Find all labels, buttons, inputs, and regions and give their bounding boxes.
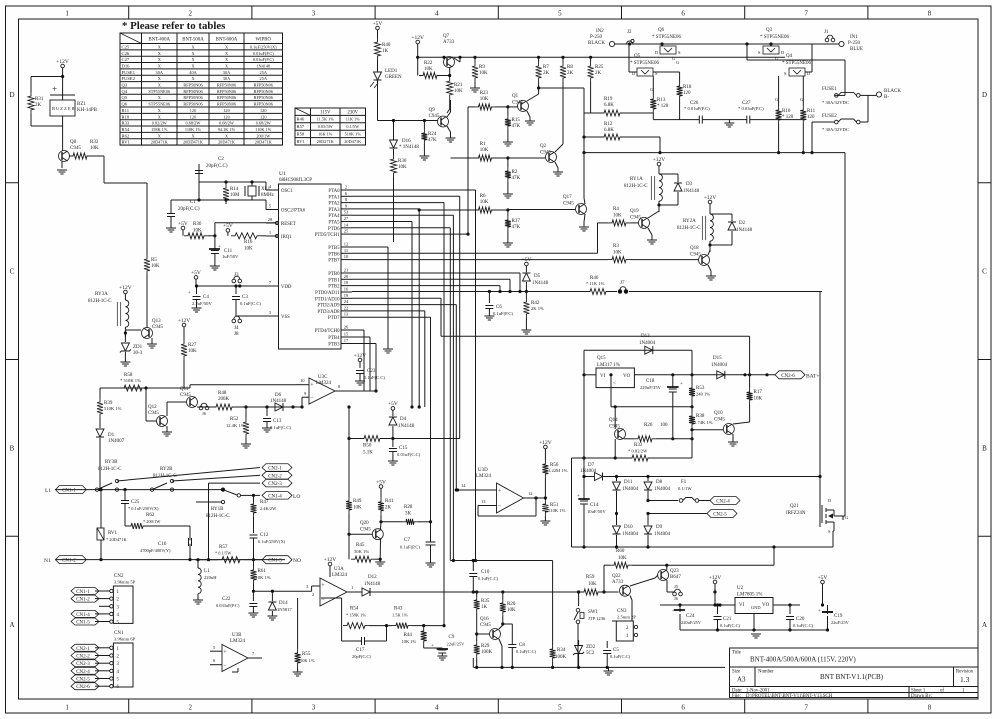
svg-text:Q8: Q8 [70, 140, 77, 145]
flag CN2-3 [262, 479, 292, 487]
svg-text:14: 14 [344, 222, 349, 227]
wire J5 J6 jumpers [673, 592, 677, 596]
resistor R21 10K [447, 77, 453, 99]
svg-text:1N4004: 1N4004 [654, 532, 671, 537]
wire ADJ row [615, 406, 692, 408]
svg-text:PTD0/AD11: PTD0/AD11 [315, 291, 340, 296]
flag CN2-1 [117, 468, 260, 482]
wire charger top rail D13 [584, 349, 692, 351]
wire Q9 collector R21 [447, 112, 451, 117]
svg-text:* 0.82/2W: * 0.82/2W [628, 449, 648, 454]
svg-text:G: G [845, 515, 849, 520]
wire Q10 collector [749, 420, 751, 422]
svg-text:C945: C945 [480, 623, 491, 628]
svg-text:+12V: +12V [653, 157, 666, 163]
flag CN2-4 [710, 497, 740, 505]
svg-text:3.96mm 6P: 3.96mm 6P [114, 637, 136, 642]
ground U2 [753, 614, 755, 631]
flag CN1-5 pin5 [71, 618, 99, 625]
opamp U3C LM324 [309, 378, 335, 404]
wire Q4 drain to rail [805, 71, 812, 73]
svg-text:3: 3 [269, 310, 272, 315]
svg-text:PTA3: PTA3 [328, 208, 340, 213]
wire bus PTD1 battery sense run [352, 297, 441, 299]
svg-text:2K 1%: 2K 1% [531, 306, 544, 311]
svg-text:120: 120 [260, 108, 266, 113]
resistor R50 5.1K [360, 436, 384, 442]
diode D14 1N5817 [271, 591, 273, 601]
svg-text:D16: D16 [402, 139, 411, 144]
svg-text:R10: R10 [782, 109, 791, 114]
svg-text:3: 3 [117, 662, 120, 667]
resistor R49 10K [348, 407, 350, 497]
capacitor C4 2.2uF/50V [196, 286, 198, 294]
svg-text:CN1-2: CN1-2 [76, 598, 90, 603]
led LED1 GREEN [374, 72, 382, 80]
svg-text:J5: J5 [674, 584, 679, 589]
wire bus PTA2 run [352, 202, 444, 204]
svg-text:200/1W: 200/1W [256, 133, 271, 138]
wire bus PTA0 run [352, 189, 476, 191]
svg-text:CN1-5: CN1-5 [76, 621, 90, 626]
svg-text:R5: R5 [151, 258, 157, 263]
svg-text:C18: C18 [646, 379, 655, 384]
svg-text:C16: C16 [158, 542, 167, 547]
transistor Q20 C945 [372, 529, 383, 540]
power +5V D5 [525, 262, 529, 266]
svg-text:22: 22 [344, 305, 349, 310]
svg-text:L1: L1 [45, 488, 51, 494]
svg-text:68HC908JL3CP: 68HC908JL3CP [279, 178, 312, 183]
svg-text:812H-1C-C: 812H-1C-C [98, 467, 122, 472]
svg-text:X: X [158, 57, 162, 62]
svg-text:CN1-1: CN1-1 [76, 590, 90, 595]
wire U3C out [335, 390, 376, 392]
wire Q13 emitter down [151, 338, 153, 344]
svg-text:VDD: VDD [281, 285, 292, 290]
flag CN2-5 pin5 [71, 675, 99, 682]
svg-text:12: 12 [344, 242, 349, 247]
svg-text:812H-1C-C: 812H-1C-C [206, 514, 230, 519]
svg-text:R21: R21 [454, 83, 463, 88]
svg-text:R12: R12 [604, 122, 613, 127]
svg-text:X: X [158, 133, 162, 138]
varistor RV1 20D471K [100, 490, 102, 528]
svg-text:Q13: Q13 [152, 319, 161, 324]
resistor R18 120 vertical [679, 76, 681, 82]
svg-text:+: + [321, 583, 325, 589]
svg-text:Q14: Q14 [609, 418, 618, 423]
svg-text:BNT-500A: BNT-500A [182, 38, 204, 43]
svg-text:6: 6 [213, 658, 216, 663]
wire bus PTD3 run [352, 310, 425, 312]
wire lower mesh horizontals [450, 560, 552, 562]
svg-text:PTD3/AD8: PTD3/AD8 [317, 310, 340, 315]
wire bus PTB2 run [352, 285, 500, 287]
svg-text:47K: 47K [428, 138, 437, 143]
svg-text:U2: U2 [737, 586, 744, 591]
svg-text:1: 1 [117, 590, 120, 595]
transistor Q12 C945 [157, 416, 168, 427]
svg-text:RY2A: RY2A [683, 219, 696, 224]
svg-text:Q6: Q6 [658, 28, 665, 33]
svg-text:C945: C945 [512, 101, 523, 106]
svg-text:KH-14PB: KH-14PB [77, 108, 98, 113]
svg-text:30A: 30A [223, 76, 231, 81]
svg-text:220uH: 220uH [204, 575, 217, 580]
wire Q12 ground [166, 426, 168, 432]
svg-text:6: 6 [681, 10, 685, 18]
capacitor C21 0.1uF [717, 605, 719, 614]
power +12V RY3A [124, 290, 128, 294]
svg-text:RFP50N06: RFP50N06 [183, 83, 203, 88]
svg-text:C10: C10 [481, 570, 490, 575]
svg-text:PTA2: PTA2 [328, 202, 340, 207]
svg-text:0.1/5W: 0.1/5W [346, 124, 360, 129]
svg-text:0.68/2W: 0.68/2W [219, 121, 235, 126]
svg-text:D: D [982, 91, 987, 99]
svg-text:0.05/5W: 0.05/5W [318, 124, 334, 129]
svg-text:C7: C7 [404, 538, 410, 543]
svg-text:120: 120 [683, 91, 691, 96]
wire U3C in+ from R58 [190, 384, 296, 386]
wire Q5 drain [629, 71, 637, 73]
svg-text:GND: GND [751, 605, 761, 610]
ground R9 [470, 88, 480, 92]
svg-text:120: 120 [223, 114, 229, 119]
svg-text:2: 2 [626, 626, 629, 631]
wire +12V rail bottom [660, 604, 735, 606]
svg-text:0.01uF(P.C): 0.01uF(P.C) [253, 57, 274, 62]
svg-text:+5V: +5V [521, 257, 531, 263]
svg-text:200K: 200K [218, 397, 230, 402]
svg-text:RV1: RV1 [122, 140, 131, 145]
svg-text:Q20: Q20 [360, 521, 369, 526]
svg-text:7: 7 [805, 704, 809, 712]
resistor R56 1.22M [542, 460, 548, 478]
connector IN2 P-250 BLACK [609, 41, 614, 46]
svg-text:0.1uF(C.C): 0.1uF(C.C) [720, 623, 741, 628]
svg-text:Q22: Q22 [612, 574, 621, 579]
svg-text:R14: R14 [230, 187, 239, 192]
resistor R57 0.1/5W [218, 557, 244, 563]
svg-text:27: 27 [344, 216, 349, 221]
ground Q9 emitter [447, 126, 451, 132]
svg-text:J8: J8 [234, 332, 239, 337]
svg-text:+12V: +12V [411, 35, 424, 41]
svg-text:R30: R30 [398, 159, 407, 164]
svg-text:RY1B: RY1B [211, 507, 224, 512]
svg-text:P-250: P-250 [848, 41, 860, 46]
svg-text:C23: C23 [367, 369, 376, 374]
svg-text:D4: D4 [400, 417, 407, 422]
resistor R9 10K [474, 57, 476, 62]
flag CN2-1 pin1 [71, 644, 99, 651]
svg-text:C945: C945 [429, 114, 440, 119]
svg-text:PTB1: PTB1 [328, 278, 340, 283]
svg-text:D8: D8 [656, 480, 663, 485]
wire bus PTB6 run [352, 252, 598, 254]
wire sense rail [358, 291, 586, 293]
svg-text:PTA4: PTA4 [328, 214, 340, 219]
svg-text:R45: R45 [356, 543, 365, 548]
svg-text:RFP50N06: RFP50N06 [217, 102, 237, 107]
svg-text:4: 4 [117, 670, 120, 675]
resistor R52 12.4K [245, 412, 247, 418]
svg-text:3: 3 [306, 584, 309, 589]
wire bridge top rail [622, 43, 839, 45]
wire Q9 base [378, 120, 438, 122]
svg-text:X: X [225, 133, 229, 138]
svg-text:10K: 10K [193, 229, 202, 234]
svg-text:24: 24 [344, 299, 349, 304]
flag CN2-6 BAT+ [775, 371, 805, 379]
node R19 junction [537, 86, 540, 89]
svg-text:Q4: Q4 [786, 54, 793, 59]
diode D3 1N4148 [659, 173, 678, 175]
svg-text:D14: D14 [279, 601, 288, 606]
svg-text:PTD5/TCH1: PTD5/TCH1 [315, 233, 340, 238]
svg-text:X: X [191, 63, 195, 68]
transistor Q8 C945 [59, 151, 70, 162]
svg-text:2: 2 [345, 185, 347, 190]
svg-text:R32: R32 [90, 140, 99, 145]
svg-text:X: X [191, 51, 195, 56]
svg-text:CN1: CN1 [114, 631, 124, 636]
svg-text:CN1-4: CN1-4 [76, 613, 90, 618]
wire R61 to U3A [254, 590, 312, 592]
resistor R44 10K [423, 626, 425, 627]
resistor R45 50K [348, 534, 350, 559]
svg-text:10K 1%: 10K 1% [402, 639, 417, 644]
svg-text:PTB5: PTB5 [328, 246, 340, 251]
fuse F1 0.1/1W [648, 500, 678, 502]
svg-text:10K: 10K [507, 608, 516, 613]
svg-text:8: 8 [928, 10, 932, 18]
resistor R8 2K [562, 57, 564, 62]
svg-text:LM7805 1%: LM7805 1% [737, 593, 762, 598]
capacitor C14 10uF/50V [583, 477, 585, 501]
svg-text:R43: R43 [394, 607, 403, 612]
svg-text:0.1uF/250V(X): 0.1uF/250V(X) [250, 44, 277, 49]
regulator U2 LM7805 [735, 598, 773, 614]
svg-text:+12V: +12V [324, 557, 337, 563]
opamp U3B LM324 [222, 645, 248, 672]
svg-text:X: X [191, 57, 195, 62]
svg-text:C945: C945 [360, 528, 371, 533]
svg-text:510K 1%: 510K 1% [548, 508, 566, 513]
resistor R29 100K [476, 634, 478, 641]
flag CN1-4 LO [262, 492, 292, 500]
svg-text:10uF/50V: 10uF/50V [587, 509, 606, 514]
resistor R30 10K [393, 149, 395, 155]
wire Q2 emitter ground [555, 162, 558, 168]
svg-text:4: 4 [435, 704, 439, 712]
wire L1 line [55, 489, 223, 491]
svg-text:Q17: Q17 [563, 195, 572, 200]
svg-text:R60: R60 [616, 549, 625, 554]
flag CN2-2 [262, 472, 292, 480]
svg-text:+12V: +12V [119, 285, 132, 291]
resistor R33 0.82/2W [628, 455, 652, 461]
svg-text:R44: R44 [404, 633, 413, 638]
svg-text:10M: 10M [230, 193, 240, 198]
svg-text:3: 3 [117, 605, 120, 610]
svg-text:CN2-3: CN2-3 [268, 482, 282, 487]
svg-text:1N4148: 1N4148 [398, 424, 415, 429]
svg-text:10K: 10K [151, 264, 160, 269]
power +5V U2 out [821, 580, 825, 584]
svg-text:CN2-6: CN2-6 [781, 374, 795, 379]
jumper J3 VDD [232, 279, 236, 283]
svg-text:A733: A733 [443, 40, 455, 45]
resistor R6 10K [475, 207, 496, 213]
svg-text:+: + [218, 245, 221, 250]
svg-text:LM317 1%: LM317 1% [597, 363, 620, 368]
svg-text:C8: C8 [519, 643, 525, 648]
svg-text:R34: R34 [557, 648, 566, 653]
svg-text:10K: 10K [480, 200, 489, 205]
svg-text:PTB3: PTB3 [328, 343, 340, 348]
svg-text:5C2: 5C2 [586, 651, 595, 656]
svg-text:R52: R52 [230, 417, 239, 422]
wire osc network [199, 181, 266, 183]
resistor R3 10K [608, 257, 630, 263]
svg-text:+5V: +5V [223, 223, 233, 229]
svg-text:FUSE2: FUSE2 [822, 114, 837, 119]
resistor R53 240 [691, 375, 693, 384]
svg-text:1N4007: 1N4007 [108, 439, 125, 444]
svg-text:1N4004: 1N4004 [622, 487, 639, 492]
svg-text:2.4K/2W: 2.4K/2W [260, 506, 277, 511]
svg-text:0.68/2W: 0.68/2W [186, 121, 202, 126]
flag CN1-2 N1 [55, 556, 86, 564]
svg-text:PTB0: PTB0 [328, 272, 340, 277]
svg-text:CN1-4: CN1-4 [268, 494, 282, 499]
svg-text:GREEN: GREEN [385, 75, 402, 80]
svg-text:Q7: Q7 [443, 34, 450, 39]
svg-text:RY3A: RY3A [95, 292, 108, 297]
svg-text:J1: J1 [824, 30, 829, 35]
svg-text:0.1uF(C.C): 0.1uF(C.C) [240, 301, 261, 306]
svg-text:LM324: LM324 [476, 474, 492, 479]
svg-text:D: D [828, 498, 832, 503]
svg-text:94.1K 1%: 94.1K 1% [218, 127, 236, 132]
svg-text:LO: LO [293, 494, 300, 500]
resistor R61 10K [253, 560, 255, 566]
svg-text:Q3: Q3 [766, 28, 773, 33]
svg-text:3.96mm 5P: 3.96mm 5P [114, 580, 136, 585]
svg-text:12: 12 [528, 491, 533, 496]
svg-text:100: 100 [660, 423, 668, 428]
svg-text:R47: R47 [260, 500, 269, 505]
svg-text:10K: 10K [398, 165, 407, 170]
svg-text:10: 10 [300, 378, 305, 383]
svg-text:R4: R4 [613, 207, 619, 212]
ground C26 C27 [727, 119, 732, 121]
svg-text:PTB7: PTB7 [328, 259, 340, 264]
svg-text:Date:: Date: [732, 688, 742, 693]
svg-text:* 1N4148: * 1N4148 [399, 145, 419, 150]
svg-text:P-250: P-250 [590, 35, 602, 40]
svg-text:C22: C22 [222, 597, 231, 602]
svg-text:BLACK: BLACK [588, 41, 605, 46]
svg-text:BAT+: BAT+ [806, 373, 820, 379]
svg-text:L1: L1 [204, 569, 210, 574]
svg-text:20DD471K: 20DD471K [183, 140, 204, 145]
svg-text:C945: C945 [714, 418, 725, 423]
svg-text:D6: D6 [275, 393, 282, 398]
svg-text:+: + [577, 494, 580, 499]
relay RY2A 812H-1C-C coil [709, 204, 711, 214]
power +12V R56 [544, 445, 548, 449]
flag CN1-4 pin4 [71, 610, 99, 617]
wire charger lower box [571, 458, 573, 547]
svg-text:+12V: +12V [709, 575, 722, 581]
svg-text:812H-1C-C: 812H-1C-C [88, 299, 112, 304]
svg-text:0.1uF(C.C): 0.1uF(C.C) [793, 623, 814, 628]
table 1: model comparison [120, 33, 283, 145]
svg-text:Q4: Q4 [122, 89, 128, 94]
svg-text:C6: C6 [496, 305, 502, 310]
svg-text:4: 4 [435, 10, 439, 18]
svg-text:5: 5 [269, 204, 272, 209]
zener ZD1 30-3 [124, 331, 127, 334]
svg-text:RFP50N06: RFP50N06 [183, 95, 203, 100]
flag CN2-6 pin6 [71, 683, 99, 690]
svg-text:Q3: Q3 [122, 83, 128, 88]
svg-text:STP55NE06: STP55NE06 [148, 89, 171, 94]
svg-text:X: X [225, 57, 229, 62]
svg-text:2K: 2K [543, 71, 550, 76]
power +5V R41 [379, 485, 383, 489]
svg-text:RFP50N06: RFP50N06 [183, 102, 203, 107]
svg-text:25A: 25A [260, 76, 268, 81]
svg-text:* STP55NE06: * STP55NE06 [630, 61, 660, 66]
svg-text:X: X [158, 76, 162, 81]
connector IN1 P-250 BLUE [839, 41, 844, 46]
resistor R58 510K [120, 385, 146, 391]
capacitor C20 0.1uF [789, 605, 791, 614]
svg-text:+12V: +12V [539, 440, 552, 446]
connector CN1 3.96mm 6P [110, 631, 136, 690]
svg-text:S: S [758, 50, 761, 55]
svg-text:+5V: +5V [191, 270, 201, 276]
svg-text:0.1uF(C.C): 0.1uF(C.C) [478, 576, 499, 581]
svg-text:15: 15 [344, 332, 349, 337]
ic U1 right pins [315, 185, 352, 348]
svg-text:1N4148: 1N4148 [256, 63, 270, 68]
wire bus PTD5 run [352, 233, 468, 235]
svg-text:0.1uF(C.C): 0.1uF(C.C) [364, 375, 385, 380]
svg-text:* 30A/32VDC: * 30A/32VDC [822, 127, 849, 132]
svg-text:2.2uF/50V: 2.2uF/50V [192, 301, 212, 306]
svg-text:6: 6 [117, 685, 120, 690]
svg-text:PTD1/AD10: PTD1/AD10 [315, 297, 340, 302]
svg-text:X: X [158, 44, 162, 49]
svg-text:220uF/35V: 220uF/35V [640, 385, 662, 390]
svg-text:RY3B: RY3B [105, 460, 118, 465]
capacitor C19 22uF/25V [827, 605, 829, 614]
svg-text:CN2-6: CN2-6 [76, 685, 90, 690]
svg-text:1: 1 [117, 647, 120, 652]
transistor Q1 C945 [518, 101, 529, 112]
ic U1 left pins [266, 184, 306, 320]
svg-text:CN2: CN2 [114, 574, 124, 579]
svg-text:100K: 100K [555, 655, 567, 660]
svg-text:3K: 3K [405, 512, 412, 517]
wire BAT+ rail [660, 374, 775, 376]
